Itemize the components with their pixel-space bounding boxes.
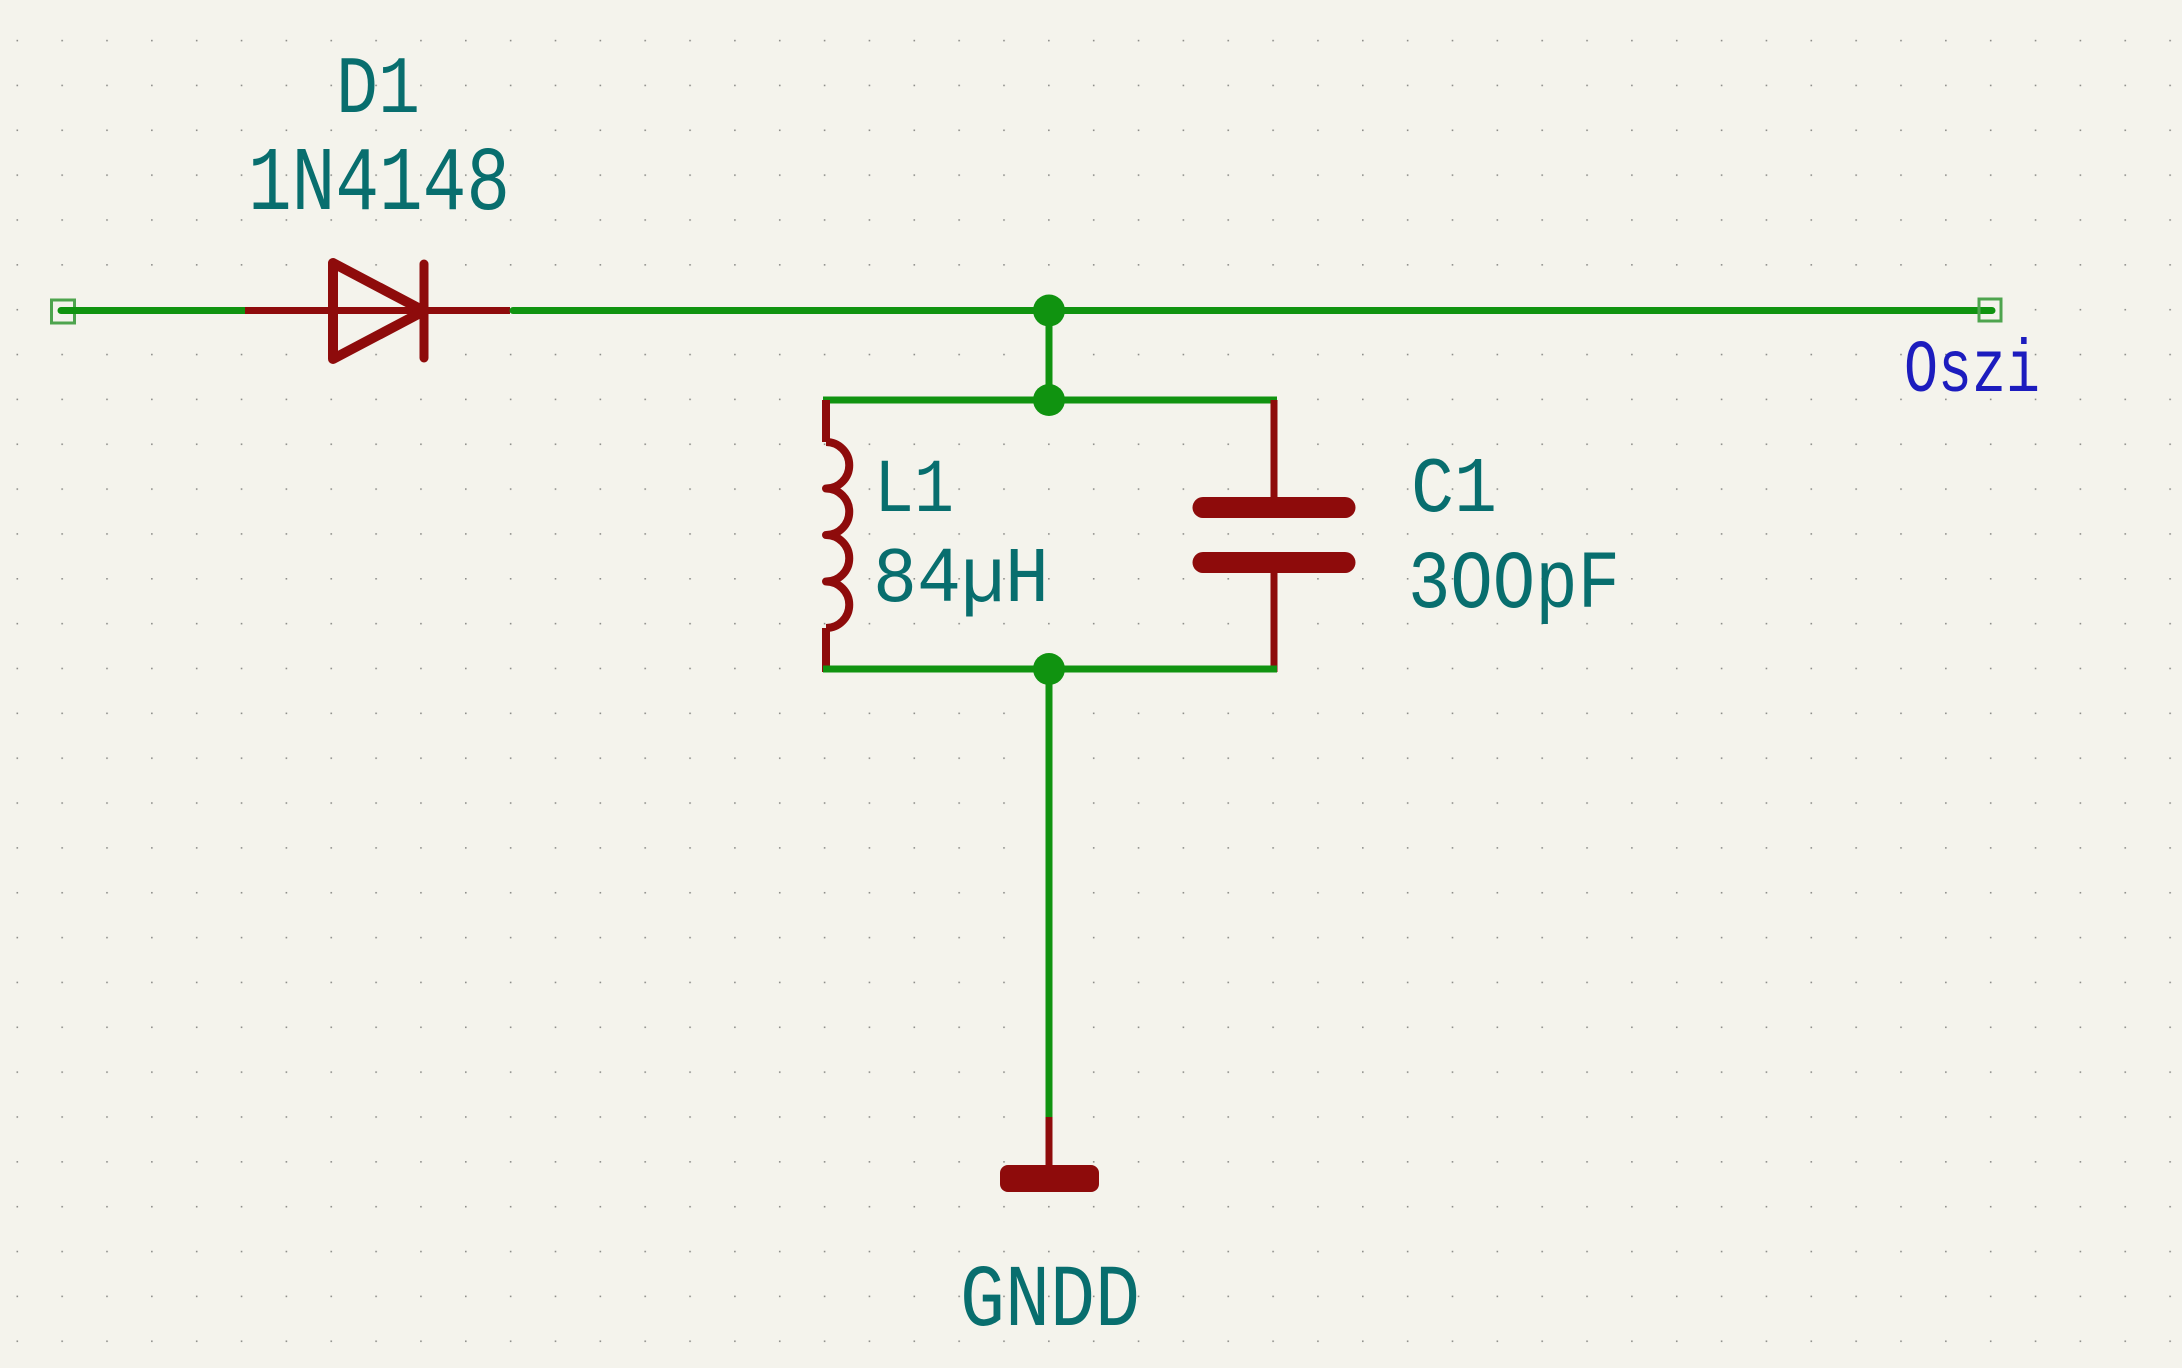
diode D1: [245, 263, 510, 359]
svg-text:C1: C1: [1411, 445, 1497, 535]
svg-text:3OOpF: 3OOpF: [1408, 538, 1620, 632]
junction tank top: [1033, 384, 1065, 416]
svg-text:GNDD: GNDD: [960, 1253, 1140, 1352]
svg-text:Oszi: Oszi: [1904, 330, 2040, 414]
inductor L1: [826, 400, 849, 672]
svg-text:84µH: 84µH: [873, 535, 1049, 625]
wire: tank bottom rail: [823, 666, 1277, 673]
wire: tank top rail: [823, 397, 1277, 404]
wire: node A down to tank top: [1046, 311, 1053, 401]
junction node A: [1033, 295, 1065, 327]
wire: tank bottom to ground: [1046, 669, 1053, 1117]
svg-text:L1: L1: [874, 448, 954, 534]
capacitor C1: [1203, 400, 1345, 672]
no-connect square right (Oszi end): [1979, 299, 2001, 321]
junction tank bottom: [1033, 653, 1065, 685]
wire: input to diode D1 anode: [61, 307, 245, 314]
svg-text:1N4148: 1N4148: [248, 134, 510, 237]
ground symbol GNDD: [1000, 1117, 1099, 1192]
no-connect square left (input end): [52, 300, 75, 323]
wire: diode D1 cathode to Oszi output: [513, 307, 1992, 314]
svg-text:D1: D1: [336, 44, 420, 137]
